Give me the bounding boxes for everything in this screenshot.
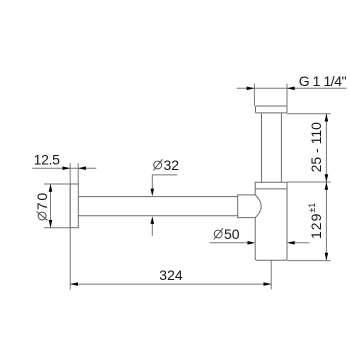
top flange: [256, 106, 288, 113]
arrow diam70 bottom (points down): [49, 220, 53, 228]
svg-text:324: 324: [159, 267, 183, 283]
arrow 324 left (points left, tip at wall line): [70, 282, 78, 286]
dimension line 25-110: [325, 114, 327, 182]
body cap joint line: [255, 188, 287, 190]
bottle trap body: [255, 182, 287, 260]
dimension line 129: [325, 182, 327, 260]
svg-text:25 - 110: 25 - 110: [308, 122, 324, 173]
arrow 324 right (points right, tip at body centre line): [264, 282, 272, 286]
witness line flange face (12.5 right): [77, 163, 79, 184]
arrow diam32 lower (points up, tip at pipe bottom): [151, 216, 155, 224]
arrow 129 bottom (points down): [325, 253, 329, 261]
dimension line 12.5: [32, 167, 96, 169]
witness line 25-110 top: [287, 113, 331, 115]
arrow diam50 left (points right, tip at body left edge): [248, 241, 256, 245]
svg-text:50: 50: [224, 226, 240, 242]
witness line 129 bottom: [287, 260, 331, 262]
svg-text:G 1 1/4": G 1 1/4": [299, 73, 347, 89]
arrow diam70 top (points up): [49, 184, 53, 192]
leader diam50 right: [293, 242, 310, 244]
witness line diam70 bottom: [44, 227, 70, 229]
witness line diam70 top: [44, 183, 70, 185]
leader diam32 vertical: [151, 175, 153, 192]
horizontal inlet pipe top edge: [78, 196, 237, 198]
elbow nut: [238, 195, 262, 218]
leader diam32 horizontal: [152, 174, 177, 176]
arrow 25-110 top (points up): [325, 114, 329, 122]
dimension line 324: [70, 283, 271, 285]
arrow G right (points left): [287, 87, 295, 91]
label diam32: [153, 157, 179, 173]
arrow diam32 upper (points down, tip at pipe top): [151, 189, 155, 197]
arrow G left (points right): [247, 87, 255, 91]
svg-text:32: 32: [164, 157, 180, 173]
svg-text:70: 70: [34, 191, 50, 210]
leader diam50 left: [210, 242, 250, 244]
label diam70 (rotated): [34, 191, 50, 220]
horizontal inlet pipe bottom edge: [78, 215, 237, 217]
label diam50: [214, 226, 240, 242]
dimension/leader line G thread: [237, 87, 347, 89]
arrow diam50 right (points left, tip at body right edge): [287, 241, 295, 245]
arrow 12.5 left (points right, tip at wall line): [63, 166, 71, 170]
diam32 lower arrow stem: [151, 220, 153, 236]
vertical outlet pipe left edge: [261, 113, 263, 182]
arrow 129 top (points up): [325, 182, 329, 190]
dimension line diam70: [50, 184, 52, 228]
witness line G thread right: [286, 84, 288, 106]
witness line G thread left: [253, 84, 255, 106]
wall flange: [70, 184, 78, 228]
arrow 25-110 bottom (points down): [325, 174, 329, 182]
vertical outlet pipe right edge: [280, 113, 282, 182]
svg-text:12.5: 12.5: [34, 151, 61, 167]
svg-text:129±1: 129±1: [307, 203, 324, 239]
witness line 25-110 bottom / 129 top: [287, 181, 331, 183]
witness line 324 right: [270, 260, 272, 289]
wall witness line (left, shared by 12.5 and 324): [69, 163, 71, 289]
arrow 12.5 right (points left, tip at flange face): [78, 166, 86, 170]
